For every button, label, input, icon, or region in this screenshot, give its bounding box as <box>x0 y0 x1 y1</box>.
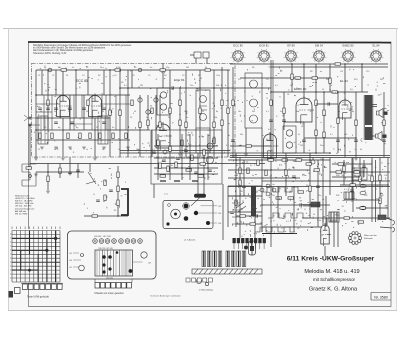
svg-text:1k: 1k <box>286 175 288 177</box>
resistor FM col x228 <box>227 108 229 114</box>
tube socket EABC 80 (underside view) <box>341 44 356 64</box>
resistor on FM top bus d <box>205 69 211 71</box>
svg-text:5n: 5n <box>150 111 152 113</box>
resistor R12 <box>283 108 285 114</box>
wire vertical x42 extra <box>41 70 43 95</box>
wire FM ladder v2 <box>59 95 61 118</box>
resistor R19 <box>270 100 272 106</box>
svg-text:1 Ou: 1 Ou <box>164 194 168 196</box>
wire sd v x326 <box>325 196 327 227</box>
resistor R42 <box>379 175 381 181</box>
resistor R24 cluster <box>117 186 119 192</box>
compr resistor x168 <box>167 166 169 172</box>
resistor sd b <box>282 159 288 161</box>
svg-text:2n: 2n <box>118 149 120 151</box>
resistor R22 cluster <box>104 195 106 201</box>
capacitor sd a <box>242 186 246 187</box>
svg-text:5k: 5k <box>202 111 204 113</box>
FM coil shield box b <box>98 116 108 144</box>
wire ll x78 <box>77 164 79 179</box>
resistor R1 <box>47 100 49 106</box>
svg-text:2k: 2k <box>102 111 104 113</box>
resistor sd f <box>239 180 241 186</box>
wire FM bus y140 <box>36 139 130 141</box>
T2 ratio coil <box>250 115 258 123</box>
AM antenna coil above box b <box>203 52 209 58</box>
wire IF1 right x210 <box>209 128 211 153</box>
wire drop x240 to switch <box>239 157 241 238</box>
capacitor sw c <box>256 214 257 218</box>
svg-text:EABC 80: EABC 80 <box>342 44 354 48</box>
svg-text:50: 50 <box>256 191 258 193</box>
wire FM ladder v7 <box>105 95 107 130</box>
wire EM80 tail <box>324 246 326 256</box>
wire FM rung y104 <box>36 103 60 105</box>
chassis block hatch <box>97 250 130 276</box>
coupling cap left <box>29 175 32 178</box>
trimmer capacitor FM 3 <box>154 98 158 102</box>
svg-text:Sämtliche Spannungen sind gege: Sämtliche Spannungen sind gegen Chassis … <box>33 44 132 47</box>
rear panel jack small 2 <box>166 222 169 225</box>
resistor sd a <box>268 159 274 161</box>
svg-text:ECH 81: ECH 81 <box>174 78 185 82</box>
wire FM left rail <box>35 70 37 157</box>
resistor FM col x186 <box>185 122 187 128</box>
chassis outline (bottom view) <box>68 231 157 279</box>
junction j3 <box>270 91 272 93</box>
svg-text:200: 200 <box>344 134 347 136</box>
ECH81 can coil b <box>160 104 166 110</box>
tube socket EL 84 (underside view) <box>369 44 384 64</box>
wire FM top bus <box>36 69 230 71</box>
rear panel knob B <box>194 211 198 215</box>
compr wire h y174 <box>154 173 218 175</box>
compressor dot b <box>203 157 205 159</box>
compressor dot c <box>213 145 215 147</box>
capacitor FM mid row 4 <box>82 108 86 109</box>
wire FM ladder v5 <box>91 95 93 130</box>
dial grid left labels <box>10 234 12 278</box>
wire sd v x244 <box>243 160 245 196</box>
svg-text:Taste UKW gedrückt: Taste UKW gedrückt <box>27 296 49 299</box>
svg-text:C10: C10 <box>296 79 299 81</box>
wire mains a <box>386 218 392 220</box>
svg-text:C42: C42 <box>364 195 367 197</box>
compr cap c1 <box>194 172 198 173</box>
resistor in compressor 7 <box>213 138 215 144</box>
junction FM e <box>35 94 37 96</box>
svg-text:R2: R2 <box>98 75 100 77</box>
wire rl v x372 <box>371 158 373 201</box>
wire drop x330 <box>329 64 331 92</box>
wire sd v x294 <box>293 186 295 232</box>
wire sd h y212 <box>228 211 262 213</box>
wire drop x180 <box>179 88 181 153</box>
capacitor C5 <box>231 140 235 141</box>
capacitor C11 cluster <box>109 190 113 191</box>
wire cluster bus <box>84 215 128 217</box>
resistor R14 FM lower row <box>89 133 91 139</box>
dial stringing diagram grid <box>12 231 60 283</box>
wire bus y218 right <box>302 217 390 219</box>
svg-text:L30: L30 <box>69 253 72 255</box>
wire drop x284 <box>283 92 285 130</box>
junction sd8 <box>270 169 272 171</box>
FM tuner unit dashed enclosure <box>32 64 236 158</box>
extra component reference labels <box>38 67 387 223</box>
svg-text:ECC 85: ECC 85 <box>76 79 88 83</box>
svg-text:0,2: 0,2 <box>268 129 271 131</box>
svg-text:10k: 10k <box>214 117 217 119</box>
svg-text:Rückseite: Rückseite <box>364 237 374 240</box>
compr resistor x176 <box>175 162 177 168</box>
wire sd h y160 <box>228 159 330 161</box>
fuse box right <box>378 215 386 220</box>
schematic fine texture specks <box>34 66 390 237</box>
resistor R34 <box>247 168 249 174</box>
svg-text:C41: C41 <box>384 175 387 177</box>
compr wire v x182 <box>181 134 183 180</box>
T1 secondary coil <box>200 114 207 121</box>
wire above box top <box>190 54 194 56</box>
svg-text:5n: 5n <box>252 175 254 177</box>
svg-text:2k: 2k <box>100 67 102 69</box>
junction FM g <box>127 87 129 89</box>
wire right v x362 <box>361 64 363 92</box>
switch cam circle <box>196 278 201 283</box>
tube socket EM 34 (underside view) <box>312 44 327 64</box>
svg-text:6/11 Kreis -UKW-Großsuper: 6/11 Kreis -UKW-Großsuper <box>287 256 375 263</box>
coil on FM top bus 2 <box>138 68 142 72</box>
capacitor compr extra b <box>152 152 156 153</box>
capacitor FM mid row 2 <box>54 108 58 109</box>
svg-text:C2: C2 <box>52 75 54 77</box>
page left edge (scan) <box>8 28 10 311</box>
resistor in compressor 6 <box>160 175 166 177</box>
component value labels <box>44 67 363 206</box>
resistor R20 <box>335 63 341 65</box>
svg-text:C6: C6 <box>182 75 184 77</box>
svg-text:50: 50 <box>86 111 88 113</box>
wire anode drop x63 <box>62 70 64 95</box>
mains hooks <box>392 220 395 232</box>
switch slider bar <box>192 269 262 274</box>
junction r5 <box>355 137 357 139</box>
resistor R3 <box>109 110 111 116</box>
switch wafer banks <box>202 251 246 267</box>
svg-text:0,5: 0,5 <box>310 111 313 113</box>
svg-text:C11: C11 <box>340 71 343 73</box>
svg-text:Zwischenfrequenzen:: Zwischenfrequenzen: <box>15 207 35 210</box>
tube socket ECC 85 (underside view) <box>231 44 246 64</box>
wire EL84 cathode x345 <box>344 118 346 157</box>
ECH81 can coil a <box>160 92 166 98</box>
ground FM small 2 <box>68 147 72 149</box>
resistor R8 <box>179 120 181 126</box>
box left of EM80 b <box>302 205 311 207</box>
compressor internal wire a <box>157 134 159 180</box>
trimmer capacitor FM 1 <box>138 98 142 102</box>
svg-text:5k: 5k <box>270 221 272 223</box>
resistor R2 <box>87 100 89 106</box>
resistor R27 left <box>26 167 32 169</box>
T3 coil a <box>286 130 292 136</box>
electrolytic cap El1 <box>360 184 366 188</box>
compr resistor h1 <box>186 169 192 171</box>
schematic border frame <box>29 42 392 307</box>
svg-text:C62: C62 <box>218 206 221 208</box>
wire heater drop x334 <box>333 222 335 247</box>
resistor R32 row <box>298 191 304 193</box>
wire IF1 left x196 <box>195 128 197 153</box>
svg-text:6p: 6p <box>338 111 340 113</box>
rear panel knob A <box>184 204 189 209</box>
resistor rl d <box>371 176 373 182</box>
page bottom edge (scan) <box>8 310 397 312</box>
wire x273 parallel <box>272 60 274 157</box>
wire FM ladder v3 <box>73 95 75 130</box>
volume potentiometer w/ switch <box>86 172 96 184</box>
wire heater drop x338 <box>337 222 339 247</box>
wire cluster rail x118 <box>117 166 119 216</box>
T3 coil b <box>286 142 292 148</box>
wire compr h y146 <box>154 145 218 147</box>
svg-text:mit Schallkompressor: mit Schallkompressor <box>313 277 356 282</box>
wire drop x223 to switch <box>222 184 224 240</box>
rear panel jack small 1 <box>168 204 171 207</box>
wire band area v1 <box>227 186 229 227</box>
resistor sd h2 <box>265 170 267 176</box>
wire vertical x84 extra <box>83 95 85 130</box>
tube socket ECH 81 (underside view) <box>257 44 272 64</box>
wire FM rung y124 <box>70 123 92 125</box>
resistor R15 FM lower row <box>99 133 101 139</box>
junction j8 <box>221 156 223 158</box>
resistor right y146 <box>246 145 252 147</box>
compressor transformer coil <box>207 157 214 164</box>
wire ll h y172 <box>36 171 84 173</box>
compressor dot a <box>157 145 159 147</box>
wire ll v x48 <box>47 164 49 191</box>
wire EM80 feed x323 <box>322 218 324 225</box>
wire FM mid bus <box>36 129 150 131</box>
IF transformer can T1 <box>196 90 210 128</box>
svg-text:Melodia M. 418 u. 419: Melodia M. 418 u. 419 <box>304 269 359 275</box>
resistor rl g <box>338 163 344 165</box>
junction sd1 <box>235 159 237 161</box>
wire osc coil x140 <box>139 95 141 130</box>
resistor rl c <box>359 176 361 182</box>
wire sd v x236 <box>235 153 237 227</box>
resistor in compressor 2 <box>169 146 171 152</box>
wire drop x356 <box>355 92 357 157</box>
FM coil shield box a <box>38 116 48 144</box>
switch diagonal contact <box>236 202 246 212</box>
wire compr h y158 <box>154 157 218 159</box>
svg-text:in Ruhestellung: in Ruhestellung <box>199 289 213 292</box>
capacitor C8 <box>382 140 386 141</box>
svg-text:EL 84: EL 84 <box>373 44 380 48</box>
svg-text:2M: 2M <box>240 191 243 193</box>
resistor FM col x152 <box>151 108 153 114</box>
wire band area h2 <box>228 195 252 197</box>
resistor rl f <box>343 166 345 172</box>
svg-text:R11: R11 <box>380 79 383 81</box>
svg-text:25n: 25n <box>318 195 321 197</box>
junction j5 <box>344 63 346 65</box>
svg-text:EF 89: EF 89 <box>287 44 295 48</box>
wire drop x233 <box>232 67 234 157</box>
wire top bus right section <box>230 63 388 65</box>
svg-text:30: 30 <box>184 149 186 151</box>
svg-text:AM 468 kHz: AM 468 kHz <box>15 210 26 213</box>
junction FM i <box>213 87 215 89</box>
junction r1 <box>291 63 293 65</box>
compr resistor h2 <box>200 163 206 165</box>
wire sd v x286 <box>285 153 287 196</box>
wire FM ladder v0 <box>43 95 45 130</box>
wire sd v x310 <box>309 153 311 218</box>
svg-text:C1: C1 <box>38 75 40 77</box>
wire vertical x170 extra <box>169 70 171 130</box>
svg-text:R6: R6 <box>252 67 254 69</box>
FM coil box a hatch <box>41 116 45 144</box>
svg-text:EM 34: EM 34 <box>315 44 323 48</box>
resistor FM col x170 <box>169 108 171 114</box>
push button row under grid <box>15 284 63 294</box>
resistor compr extra a <box>203 150 205 156</box>
output transformer winding lower (dark) <box>365 127 372 140</box>
selen rectifier block <box>344 192 354 199</box>
rear panel leader lines <box>198 206 217 223</box>
junction r4 <box>337 91 339 93</box>
resistor R18 <box>383 120 385 126</box>
svg-text:2M: 2M <box>140 85 143 87</box>
resistor ll b <box>59 168 61 174</box>
svg-text:8p: 8p <box>216 111 218 113</box>
wire EABC80 anode x304 <box>303 64 305 98</box>
capacitor in compressor 1 <box>162 160 166 161</box>
svg-text:25n: 25n <box>272 195 275 197</box>
resistor sd g <box>257 160 259 166</box>
svg-text:1k: 1k <box>296 111 298 113</box>
frame top rule (dark) <box>28 41 391 44</box>
wire sd v x262 <box>261 153 263 232</box>
svg-text:EL 84: EL 84 <box>340 79 348 83</box>
wire rl v x372b <box>371 160 373 222</box>
tube socket EF 89 (underside view) <box>284 44 299 64</box>
wire drop x76 <box>75 70 77 118</box>
compr cap c2 <box>208 170 212 171</box>
resistor R13 <box>315 100 317 106</box>
wire long bus lower <box>230 157 390 159</box>
T2 secondary coil <box>250 99 258 107</box>
wire into box a <box>195 58 197 64</box>
svg-text:2M: 2M <box>360 169 363 171</box>
resistor right x292 <box>291 74 293 80</box>
svg-text:C30 C31: C30 C31 <box>106 278 113 280</box>
resistor rl b <box>354 171 360 173</box>
capacitor ll a <box>68 172 72 173</box>
svg-text:1n: 1n <box>86 149 88 151</box>
junction r2 <box>361 63 363 65</box>
svg-text:50k: 50k <box>216 85 219 87</box>
antenna dipole symbol <box>24 115 28 121</box>
dial cord pulley 3 <box>28 269 31 272</box>
resistor R26 cluster <box>92 215 98 217</box>
resistor FM col x160 <box>159 122 161 128</box>
svg-text:L28 L29 L47 C48: L28 L29 L47 C48 <box>94 236 111 238</box>
junction j7 <box>329 152 331 154</box>
wire sw h y224 <box>236 223 262 225</box>
svg-text:Chassis von unten gesehen: Chassis von unten gesehen <box>94 292 124 295</box>
capacitor C4 <box>172 86 173 90</box>
wire drop x110 <box>109 70 111 157</box>
wire drop x198 to panel <box>197 153 199 194</box>
junction compr2 <box>189 157 191 159</box>
junction j2 <box>179 87 181 89</box>
wire trafo feed x330 <box>329 158 331 196</box>
resistor R40 <box>344 217 350 219</box>
svg-text:8: 8 <box>306 191 307 193</box>
wire rl v x375 <box>375 160 377 222</box>
svg-text:an T.-Anschl.: an T.-Anschl. <box>184 239 196 242</box>
wire speaker pair a <box>372 104 377 106</box>
wire drop x204 to panel <box>203 153 205 194</box>
T1 trimmer arrows <box>199 106 207 110</box>
resistor R16 FM lower row <box>112 133 114 139</box>
svg-text:L31: L31 <box>69 267 72 269</box>
ground mid 1 <box>178 154 182 156</box>
wire sd v x278 <box>277 186 279 218</box>
svg-text:50n: 50n <box>240 134 243 136</box>
tube V4 EABC80 <box>296 96 314 124</box>
component box cluster rl <box>352 168 367 180</box>
resistor sw a <box>240 215 246 217</box>
tube V1b ECC85 triode b <box>89 94 104 119</box>
svg-text:1n: 1n <box>146 117 148 119</box>
capacitor FM mid row 3 <box>68 108 72 109</box>
wire drop x222 <box>221 67 223 157</box>
chassis IF block <box>95 250 133 276</box>
svg-text:15: 15 <box>38 149 40 151</box>
svg-text:1k: 1k <box>322 89 324 91</box>
ground FM 2 <box>61 158 65 160</box>
wire vol pot drop x90 <box>89 164 91 173</box>
chassis left leader marks <box>73 253 81 267</box>
svg-text:C7: C7 <box>216 75 218 77</box>
svg-text:40: 40 <box>324 115 326 117</box>
tube V2 ECH81 <box>156 122 172 150</box>
wire rl v x353 <box>352 158 354 213</box>
svg-text:60: 60 <box>236 175 238 177</box>
resistor R15 <box>329 78 331 84</box>
resistor R43 <box>379 198 381 204</box>
wire bus y227 mid <box>262 226 322 228</box>
svg-text:C50: C50 <box>69 260 72 262</box>
svg-text:1n: 1n <box>68 111 70 113</box>
svg-text:5p: 5p <box>54 111 56 113</box>
wire rl v x364 <box>363 160 365 177</box>
svg-text:1n: 1n <box>240 221 242 223</box>
svg-text:0,1: 0,1 <box>152 149 155 151</box>
tone bracket piece <box>121 189 128 215</box>
wire mid v x154 <box>153 184 155 198</box>
compr junction e <box>181 173 183 175</box>
resistor R17 <box>355 120 357 126</box>
resistor R10 <box>221 120 223 126</box>
ground right 1 <box>354 158 358 160</box>
